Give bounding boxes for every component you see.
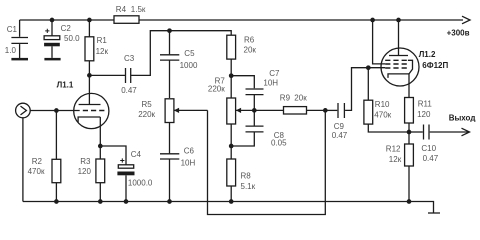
label Выход <box>449 114 476 123</box>
svg-text:12к: 12к <box>389 155 402 164</box>
wire wiper detour down and right <box>208 110 326 214</box>
node rail-C2 junction <box>50 18 55 23</box>
wire cathode node to C4 <box>100 146 126 165</box>
svg-text:20к: 20к <box>294 93 307 102</box>
wire R1 bottom to C3 <box>89 74 125 76</box>
capacitor C1 <box>5 20 28 58</box>
svg-text:1.5к: 1.5к <box>131 5 146 14</box>
svg-text:C7: C7 <box>269 69 280 78</box>
resistor R8 5.1к <box>227 124 256 202</box>
node g1-R10 junction <box>366 65 371 70</box>
resistor R11 120 <box>405 98 433 133</box>
svg-text:0.05: 0.05 <box>271 138 287 147</box>
svg-text:C2: C2 <box>61 24 72 33</box>
potentiometer R7 220к <box>208 76 254 124</box>
svg-text:R12: R12 <box>386 145 401 154</box>
svg-text:20к: 20к <box>244 46 257 55</box>
tube Л1.2 pentode <box>381 20 448 98</box>
input source symbol <box>16 103 80 201</box>
svg-text:C3: C3 <box>124 54 135 63</box>
svg-text:Л1.1: Л1.1 <box>57 80 74 89</box>
node R1-C3-anode junction <box>87 73 92 78</box>
node rail-R1 junction <box>87 18 92 23</box>
svg-text:0.47: 0.47 <box>332 131 348 140</box>
node rail-R3 <box>98 199 103 204</box>
svg-text:12к: 12к <box>96 47 109 56</box>
resistor R3 120 <box>78 146 105 202</box>
node rail-R2 <box>54 199 59 204</box>
svg-text:220к: 220к <box>138 110 155 119</box>
wire junction to R9 <box>254 109 283 111</box>
resistor R2 470к <box>28 111 61 202</box>
capacitor C4 1000.0 <box>117 150 153 202</box>
resistor R6 20к <box>227 35 257 75</box>
svg-text:1.0: 1.0 <box>5 46 17 55</box>
svg-text:50.0: 50.0 <box>64 34 80 43</box>
node rail-g2 junction <box>370 18 375 23</box>
svg-text:120: 120 <box>417 110 431 119</box>
svg-text:120: 120 <box>78 167 92 176</box>
svg-text:5.1к: 5.1к <box>241 182 256 191</box>
node rail-R8 <box>229 199 234 204</box>
resistor R10 470к <box>364 68 409 132</box>
svg-text:0.47: 0.47 <box>423 154 439 163</box>
node wiper-C7-C8 junction <box>252 108 257 113</box>
svg-text:C5: C5 <box>184 49 195 58</box>
capacitor C5 1000 <box>160 31 198 98</box>
node output junction <box>407 130 412 135</box>
svg-text:6Ф12П: 6Ф12П <box>422 61 448 70</box>
wire junction to C7 <box>231 76 254 89</box>
potentiometer R5 220к <box>138 99 179 123</box>
wire R5 wiper to detour <box>174 109 208 111</box>
node rail-C6 <box>167 199 172 204</box>
capacitor C10 0.47 <box>409 125 468 164</box>
svg-text:470к: 470к <box>28 167 45 176</box>
ground C1 <box>11 58 28 61</box>
resistor R12 12к <box>386 132 414 202</box>
node R6-R7-C7 junction <box>229 73 234 78</box>
svg-text:220к: 220к <box>208 84 225 93</box>
svg-text:R11: R11 <box>418 100 433 109</box>
svg-text:C4: C4 <box>131 150 142 159</box>
svg-text:R1: R1 <box>97 36 108 45</box>
svg-text:R2: R2 <box>32 157 43 166</box>
svg-text:10H: 10H <box>263 79 278 88</box>
svg-text:1000: 1000 <box>180 61 198 70</box>
svg-text:R3: R3 <box>80 157 91 166</box>
capacitor C3 0.47 <box>121 54 137 95</box>
node output arrow <box>462 128 470 136</box>
svg-text:0.47: 0.47 <box>121 86 137 95</box>
wire bottom ground rail <box>23 202 434 214</box>
node cathode-R3-C4 junction <box>98 144 103 149</box>
svg-text:Л1.2: Л1.2 <box>419 50 436 59</box>
capacitor C9 0.47 <box>325 103 348 140</box>
svg-text:1000.0: 1000.0 <box>128 179 153 188</box>
svg-text:C1: C1 <box>7 25 18 34</box>
svg-text:R10: R10 <box>375 100 390 109</box>
node C5 top junction <box>167 28 172 33</box>
resistor R9 20к <box>280 93 326 114</box>
ground C2 <box>44 58 60 61</box>
svg-text:C10: C10 <box>421 144 436 153</box>
svg-text:470к: 470к <box>374 111 391 120</box>
node R7-R8-C8 junction <box>229 144 234 149</box>
svg-text:R8: R8 <box>241 171 252 180</box>
wire C3 to C5 top node <box>131 31 232 76</box>
wire C9 to grid1 <box>345 68 385 111</box>
capacitor C7 10H <box>246 69 280 126</box>
wire top B+ rail <box>20 19 463 21</box>
ground symbol right <box>428 212 440 214</box>
svg-text:R6: R6 <box>244 36 255 45</box>
resistor R4 1.5к <box>114 5 146 23</box>
resistor R1 12к <box>85 20 108 75</box>
svg-text:R4: R4 <box>116 5 127 14</box>
svg-text:R9: R9 <box>280 93 291 102</box>
capacitor C6 10H <box>160 122 195 201</box>
node rail-R12 <box>407 199 412 204</box>
svg-text:R5: R5 <box>142 100 153 109</box>
svg-text:Выход: Выход <box>449 114 476 123</box>
svg-text:10H: 10H <box>181 159 196 168</box>
node R9-C9-detour junction <box>323 108 328 113</box>
node B+ arrow <box>462 16 470 24</box>
node rail-C4 <box>124 199 129 204</box>
wire B+ to screen grid <box>373 20 386 64</box>
capacitor C2 <box>44 20 80 58</box>
capacitor C8 0.05 <box>231 126 287 147</box>
svg-text:+300в: +300в <box>447 29 470 38</box>
label +300в <box>447 29 470 38</box>
tube Л1.1 triode <box>57 75 109 146</box>
svg-text:C9: C9 <box>334 122 345 131</box>
node rail-anode2 junction <box>396 18 401 23</box>
svg-text:C6: C6 <box>184 147 195 156</box>
node grid-R2 junction <box>54 108 59 113</box>
